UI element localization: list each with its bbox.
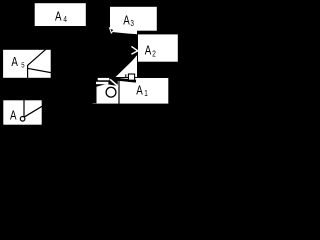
block A6 bbox=[3, 100, 42, 125]
block A5 bbox=[3, 49, 52, 78]
state circle O bbox=[106, 87, 116, 97]
white mark diagonal on flag bbox=[110, 79, 118, 86]
black cursor flag body bbox=[111, 29, 139, 81]
svg-text:A: A bbox=[145, 44, 152, 58]
svg-text:4: 4 bbox=[63, 14, 67, 24]
svg-text:A: A bbox=[10, 109, 17, 123]
wire arrow-line to A3 bbox=[110, 28, 114, 33]
open arrowhead at A2 left edge bbox=[131, 46, 137, 54]
switch wire A5 vertical bbox=[27, 65, 29, 78]
switch wire A6 vertical bbox=[23, 100, 25, 117]
svg-text:A: A bbox=[55, 11, 62, 25]
open arrowhead at A3 corner bbox=[110, 28, 115, 33]
svg-text:2: 2 bbox=[152, 49, 156, 59]
label A1 bbox=[136, 84, 143, 98]
central white panel bbox=[111, 29, 137, 78]
svg-text:1: 1 bbox=[144, 88, 148, 98]
small tick above box edge bbox=[125, 74, 127, 78]
divider line bbox=[118, 78, 120, 104]
wide box O / A1 bbox=[92, 78, 169, 105]
pivot circle A6 bbox=[20, 117, 25, 122]
switch lever A5 bbox=[27, 48, 47, 66]
thick underline stroke from cursor tip bbox=[113, 79, 137, 81]
white mark bar 1 on flag bbox=[98, 78, 110, 80]
block A3 bbox=[110, 6, 158, 31]
svg-text:A: A bbox=[123, 14, 130, 28]
block A2 bbox=[138, 34, 179, 62]
svg-text:5: 5 bbox=[21, 62, 25, 70]
switch lever A6 bbox=[25, 106, 42, 117]
white mark bar 2 on flag bbox=[96, 82, 108, 84]
block A4 bbox=[34, 3, 86, 27]
drag item small rect icon bbox=[128, 74, 134, 80]
black cursor flag tip and pole over box bbox=[93, 78, 119, 103]
svg-text:3: 3 bbox=[130, 18, 134, 28]
svg-text:A: A bbox=[136, 84, 143, 98]
svg-text:A: A bbox=[11, 56, 18, 70]
switch contact line A5 bbox=[27, 68, 50, 72]
